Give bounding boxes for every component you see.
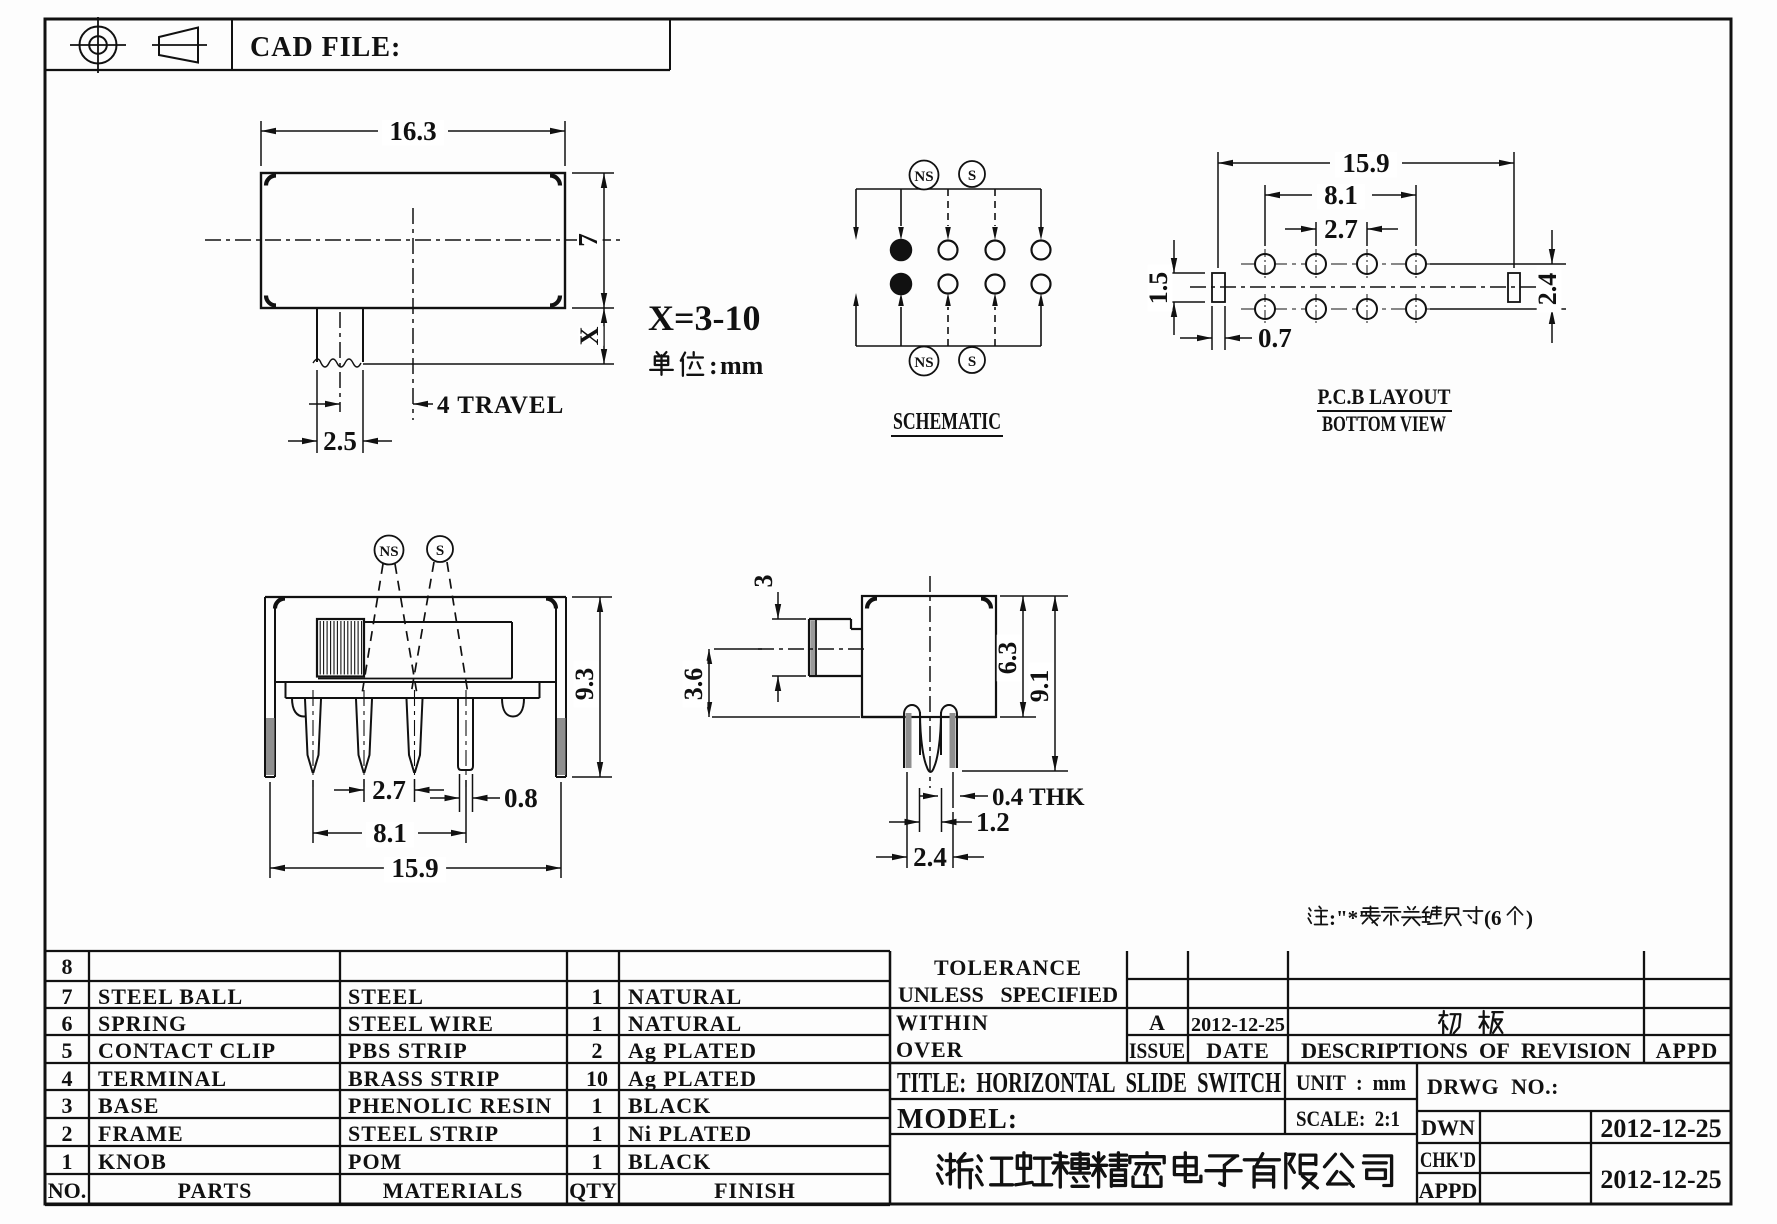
side view body outline — [862, 596, 996, 717]
schematic S label bottom — [959, 347, 985, 373]
svg-text:15.9: 15.9 — [391, 853, 438, 883]
svg-text:(6: (6 — [1484, 906, 1502, 930]
svg-text:3.6: 3.6 — [679, 668, 708, 701]
projection cone symbol — [152, 44, 207, 46]
schematic S label top — [959, 161, 985, 187]
svg-text:STEEL BALL: STEEL BALL — [98, 984, 243, 1009]
top view vertical center line — [412, 208, 414, 420]
svg-text::"*": :"*" — [1329, 906, 1370, 930]
svg-text:0.8: 0.8 — [504, 783, 538, 813]
svg-text:S: S — [968, 354, 976, 370]
svg-text:8.1: 8.1 — [373, 818, 407, 848]
front view knob with serrations — [317, 619, 364, 677]
front view left ear bump — [292, 698, 316, 717]
svg-text:16.3: 16.3 — [389, 116, 436, 146]
svg-text:7: 7 — [573, 233, 603, 247]
svg-text:BRASS STRIP: BRASS STRIP — [348, 1066, 500, 1091]
dimension 2.4 pcb — [1430, 263, 1566, 265]
svg-text:DATE: DATE — [1206, 1038, 1270, 1063]
pcb main center line — [1190, 286, 1560, 288]
schematic contacts row 2 — [891, 274, 912, 295]
front view base ledge line — [275, 681, 556, 683]
front view right mounting leg — [565, 597, 567, 777]
front view channel — [364, 621, 512, 623]
svg-text:3: 3 — [749, 575, 778, 588]
svg-text:2012-12-25: 2012-12-25 — [1600, 1165, 1721, 1194]
schematic contacts row 1 — [891, 240, 912, 261]
front view S pointer circle — [427, 536, 453, 562]
projection target symbol — [80, 27, 117, 64]
CAD FILE title box — [45, 69, 670, 71]
svg-text:X=3-10: X=3-10 — [648, 298, 761, 338]
dimension 2.4 side — [952, 812, 954, 868]
dimension 3.6 side — [714, 648, 762, 650]
svg-text:1: 1 — [592, 1121, 603, 1146]
svg-text:UNIT : mm: UNIT : mm — [1296, 1070, 1406, 1095]
side view corner relief arcs — [867, 599, 877, 609]
dimension 8.1 pcb — [1264, 185, 1266, 246]
svg-text:TERMINAL: TERMINAL — [98, 1066, 227, 1091]
svg-text:): ) — [1526, 906, 1533, 930]
svg-text:TOLERANCE: TOLERANCE — [934, 955, 1082, 980]
svg-text:1: 1 — [592, 1149, 603, 1174]
svg-text:2.7: 2.7 — [372, 775, 406, 805]
revision description cell — [1439, 1011, 1460, 1034]
svg-text::: : — [709, 351, 718, 380]
front view pin 4 flat terminal — [458, 699, 473, 770]
svg-text:4 TRAVEL: 4 TRAVEL — [437, 392, 564, 419]
svg-text:APPD: APPD — [1419, 1178, 1478, 1203]
svg-text:9.1: 9.1 — [1025, 670, 1054, 703]
front view corner relief arcs — [275, 599, 285, 609]
pcb left slot — [1212, 273, 1225, 302]
front view pins — [305, 699, 321, 772]
side view knob center line — [758, 648, 868, 650]
top view body outline — [261, 173, 565, 308]
svg-text:WITHIN: WITHIN — [896, 1010, 989, 1035]
svg-text:CHK'D: CHK'D — [1420, 1147, 1476, 1172]
svg-text:APPD: APPD — [1656, 1038, 1719, 1063]
schematic column lines — [900, 189, 902, 226]
svg-text:NATURAL: NATURAL — [628, 1011, 742, 1036]
dimension 8.1 front — [312, 780, 314, 843]
svg-text:MODEL:: MODEL: — [897, 1104, 1018, 1135]
dimension 3 side — [772, 618, 806, 620]
svg-text:SPRING: SPRING — [98, 1011, 187, 1036]
front view frame top edge — [265, 596, 566, 598]
svg-text:10: 10 — [586, 1066, 608, 1091]
front view left mounting leg — [264, 597, 266, 777]
svg-text:BLACK: BLACK — [628, 1149, 711, 1174]
svg-text:NATURAL: NATURAL — [628, 984, 742, 1009]
svg-text:QTY: QTY — [569, 1178, 617, 1203]
dimension X extension line — [363, 363, 614, 365]
dimension 9.1 side — [962, 770, 1068, 772]
title block grid — [889, 951, 891, 1205]
svg-text:Ag PLATED: Ag PLATED — [628, 1066, 757, 1091]
knob stem — [316, 308, 318, 362]
svg-text:5: 5 — [62, 1038, 73, 1063]
svg-text:CONTACT CLIP: CONTACT CLIP — [98, 1038, 276, 1063]
svg-text:S: S — [968, 168, 976, 184]
svg-text:STEEL: STEEL — [348, 984, 424, 1009]
svg-text:STEEL WIRE: STEEL WIRE — [348, 1011, 494, 1036]
dimension 1.5 pcb — [1160, 272, 1205, 274]
NS S dashed leader lines — [362, 564, 383, 694]
svg-text:mm: mm — [720, 351, 764, 380]
svg-text:BOTTOM VIEW: BOTTOM VIEW — [1322, 411, 1446, 436]
svg-text:2012-12-25: 2012-12-25 — [1191, 1014, 1285, 1036]
side view knob profile — [809, 618, 851, 620]
svg-text:NS: NS — [914, 169, 933, 185]
svg-text:KNOB: KNOB — [98, 1149, 167, 1174]
svg-text:0.7: 0.7 — [1258, 323, 1292, 353]
svg-text:1: 1 — [62, 1149, 73, 1174]
schematic box — [856, 188, 1041, 190]
note unit mm — [650, 352, 673, 375]
svg-text:1.5: 1.5 — [1144, 272, 1173, 305]
svg-text:NO.: NO. — [48, 1178, 87, 1203]
svg-text:6: 6 — [62, 1011, 73, 1036]
svg-text:2.4: 2.4 — [1533, 273, 1562, 306]
dimension 16.3 — [260, 121, 262, 166]
dimension 2.7 front — [363, 779, 365, 802]
svg-text:PBS STRIP: PBS STRIP — [348, 1038, 468, 1063]
svg-text:DESCRIPTIONS OF REVISION: DESCRIPTIONS OF REVISION — [1301, 1038, 1631, 1063]
svg-text:4: 4 — [62, 1066, 73, 1091]
svg-text:8.1: 8.1 — [1324, 180, 1358, 210]
svg-text:PHENOLIC RESIN: PHENOLIC RESIN — [348, 1093, 552, 1118]
front view base bottom edge with steps — [285, 682, 287, 698]
svg-text:2: 2 — [62, 1121, 73, 1146]
company name — [938, 1154, 972, 1188]
svg-text:POM: POM — [348, 1149, 402, 1174]
svg-text:6.3: 6.3 — [993, 642, 1022, 675]
svg-text:Ag PLATED: Ag PLATED — [628, 1038, 757, 1063]
top view corner relief arcs — [266, 176, 276, 186]
front view right ear bump — [502, 698, 524, 717]
svg-text:X: X — [575, 326, 604, 345]
schematic NS label bottom — [910, 347, 939, 376]
dimension 6.3 side — [1000, 595, 1068, 597]
front view channel bottom line — [318, 678, 512, 680]
svg-text:UNLESS SPECIFIED: UNLESS SPECIFIED — [898, 982, 1118, 1007]
svg-text:9.3: 9.3 — [570, 668, 599, 701]
svg-text:2.7: 2.7 — [1324, 214, 1358, 244]
schematic NS label top — [910, 161, 939, 190]
dimension 15.9 pcb — [1217, 152, 1219, 268]
front view NS pointer circle — [375, 536, 404, 565]
dimension 0.4 THK side — [906, 772, 908, 868]
pcb right slot — [1508, 273, 1520, 302]
svg-text:15.9: 15.9 — [1342, 148, 1389, 178]
dimension 2.5 — [316, 370, 318, 453]
svg-text:PARTS: PARTS — [178, 1178, 253, 1203]
dimension X — [603, 308, 605, 364]
dimension 0.8 front — [459, 774, 461, 812]
dimension 15.9 front — [269, 782, 271, 878]
dimension 1.2 side — [919, 788, 921, 832]
svg-text:BASE: BASE — [98, 1093, 159, 1118]
svg-text:ISSUE: ISSUE — [1129, 1038, 1185, 1063]
dimension 9.3 front — [572, 596, 612, 598]
svg-text:NS: NS — [379, 544, 398, 560]
svg-text:8: 8 — [62, 954, 73, 979]
svg-text:SCALE: 2:1: SCALE: 2:1 — [1296, 1106, 1400, 1131]
svg-text:2: 2 — [592, 1038, 603, 1063]
parts table grid — [45, 950, 890, 952]
svg-text:DWN: DWN — [1421, 1115, 1475, 1140]
svg-text:TITLE: HORIZONTAL SLIDE SWI: TITLE: HORIZONTAL SLIDE SWITCH — [897, 1068, 1281, 1099]
svg-text:DRWG NO.:: DRWG NO.: — [1427, 1074, 1559, 1099]
svg-text:BLACK: BLACK — [628, 1093, 711, 1118]
svg-text:3: 3 — [62, 1093, 73, 1118]
svg-text:MATERIALS: MATERIALS — [383, 1178, 524, 1203]
svg-text:2.5: 2.5 — [323, 426, 357, 456]
svg-text:1: 1 — [592, 984, 603, 1009]
svg-text:CAD FILE:: CAD FILE: — [250, 32, 401, 63]
svg-text:A: A — [1149, 1010, 1165, 1035]
svg-text:SCHEMATIC: SCHEMATIC — [893, 409, 1001, 435]
svg-text:Ni PLATED: Ni PLATED — [628, 1121, 752, 1146]
svg-text:OVER: OVER — [896, 1037, 964, 1062]
dimension 0.7 pcb — [1211, 306, 1213, 350]
svg-text:STEEL STRIP: STEEL STRIP — [348, 1121, 499, 1146]
note key dimensions — [1308, 906, 1327, 924]
side view terminal prongs — [904, 705, 920, 768]
svg-text:P.C.B LAYOUT: P.C.B LAYOUT — [1318, 384, 1451, 409]
svg-text:NS: NS — [914, 355, 933, 371]
svg-text:7: 7 — [62, 984, 73, 1009]
svg-text:2012-12-25: 2012-12-25 — [1600, 1114, 1721, 1143]
4 TRAVEL dimension — [309, 403, 340, 405]
dimension 2.7 pcb — [1315, 222, 1317, 246]
svg-text:1.2: 1.2 — [976, 807, 1010, 837]
svg-text:FRAME: FRAME — [98, 1121, 184, 1146]
svg-text:S: S — [436, 543, 444, 559]
svg-text:2.4: 2.4 — [913, 842, 947, 872]
pcb holes — [1241, 263, 1440, 265]
svg-text:FINISH: FINISH — [714, 1178, 796, 1203]
svg-text:1: 1 — [592, 1011, 603, 1036]
side view body bottom edge — [862, 716, 904, 718]
dimension 7 — [572, 172, 614, 174]
top view horizontal center line — [205, 239, 622, 241]
side view vertical center line — [929, 576, 931, 788]
svg-text:1: 1 — [592, 1093, 603, 1118]
